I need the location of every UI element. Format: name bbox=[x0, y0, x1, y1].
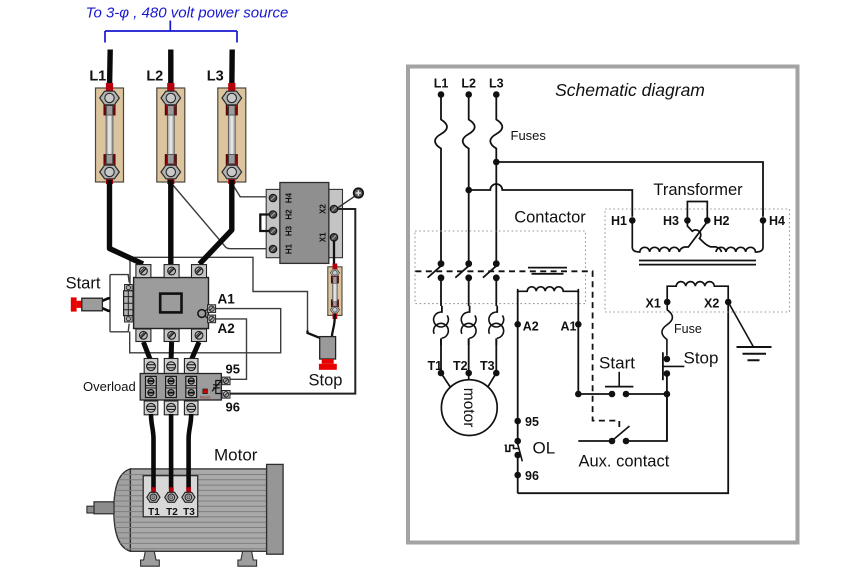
aux branch wires bbox=[578, 394, 667, 441]
contactor top terminal 3 bbox=[192, 265, 207, 278]
reset button bbox=[200, 389, 211, 399]
node A1 junction bbox=[575, 391, 582, 398]
wires T to motor bbox=[441, 373, 496, 387]
contactor bottom terminal 1 bbox=[136, 329, 151, 342]
node L2 junction bbox=[465, 187, 472, 194]
node T3 bbox=[493, 370, 500, 377]
svg-text:T2: T2 bbox=[166, 507, 178, 518]
wire control fuse to stop bbox=[332, 314, 335, 338]
svg-text:Overload: Overload bbox=[83, 379, 136, 394]
node X1 bbox=[664, 299, 671, 306]
primary coil right bbox=[716, 220, 763, 252]
ground symbol bbox=[737, 347, 772, 360]
motor left cap bbox=[114, 469, 131, 551]
wire X1 to control fuse bbox=[333, 241, 335, 267]
node H3 bbox=[684, 217, 691, 224]
control fuse holder bbox=[328, 264, 342, 320]
contactor body bbox=[134, 278, 209, 329]
svg-text:Start: Start bbox=[599, 354, 635, 373]
contactor bottom terminal 3 bbox=[192, 329, 207, 342]
cross wire H2 to left coil with hop bbox=[679, 220, 707, 252]
start branch wires bbox=[578, 393, 667, 395]
wire heater L3 down bbox=[495, 278, 497, 373]
motor circle bbox=[441, 380, 497, 436]
motor right end plate bbox=[267, 464, 284, 554]
svg-text:Contactor: Contactor bbox=[514, 209, 586, 227]
start button linkage bracket bbox=[110, 275, 129, 332]
overload top terminal 3 bbox=[184, 359, 198, 374]
wire coil left to A2 bbox=[517, 291, 519, 493]
terminal X2 bbox=[330, 205, 337, 212]
jumper H2 to H3 bbox=[260, 215, 272, 232]
control fuse below X1 bbox=[662, 302, 673, 356]
overload bottom terminal 2 bbox=[164, 401, 178, 415]
svg-text:L1: L1 bbox=[89, 69, 106, 85]
contact L1 bbox=[428, 260, 445, 281]
svg-text:A2: A2 bbox=[523, 320, 539, 334]
fuse holder F2 bbox=[157, 83, 185, 184]
svg-text:L3: L3 bbox=[207, 69, 224, 85]
motor terminal T2 bbox=[165, 487, 178, 502]
motor terminal T3 bbox=[182, 487, 195, 502]
wire overload to T3 bbox=[189, 414, 192, 489]
svg-text:L1: L1 bbox=[434, 77, 449, 91]
svg-text:H3: H3 bbox=[663, 214, 679, 228]
svg-text:Fuses: Fuses bbox=[511, 128, 547, 143]
svg-text:Transformer: Transformer bbox=[653, 181, 743, 199]
svg-text:96: 96 bbox=[525, 469, 539, 483]
wire stop left lead bbox=[308, 331, 321, 339]
terminal H4 bbox=[269, 194, 276, 201]
transformer body bbox=[280, 183, 329, 264]
core lines bbox=[639, 261, 756, 265]
contact L3 bbox=[483, 260, 500, 281]
terminal 95 tab bbox=[222, 377, 230, 385]
overload bottom terminal 1 bbox=[144, 401, 158, 415]
svg-text:Start: Start bbox=[66, 275, 101, 293]
thin wire L3 fuse to H4 bbox=[233, 185, 269, 197]
bottom rail bbox=[518, 302, 729, 493]
contactor top terminal 1 bbox=[136, 265, 151, 278]
svg-text:95: 95 bbox=[525, 415, 539, 429]
svg-text:T3: T3 bbox=[183, 507, 195, 518]
heater L3 bbox=[489, 306, 504, 346]
wire L1 with fuse bbox=[435, 95, 447, 264]
svg-text:H2: H2 bbox=[284, 209, 293, 220]
svg-text:Aux. contact: Aux. contact bbox=[579, 453, 670, 471]
frame of schematic diagram bbox=[408, 67, 798, 543]
node A2 bbox=[514, 321, 521, 328]
primary coil left bbox=[632, 220, 679, 252]
terminal X1 bbox=[330, 234, 337, 241]
overload bottom terminal 3 bbox=[184, 401, 198, 415]
contactor inner square bbox=[160, 294, 181, 313]
motor foot 1 bbox=[141, 551, 160, 566]
node L2 bbox=[465, 91, 472, 98]
motor shaft bbox=[94, 502, 114, 514]
transformer left plate bbox=[266, 189, 280, 257]
blue bracket bbox=[105, 21, 237, 43]
start button red cap bbox=[71, 297, 77, 311]
svg-text:A1: A1 bbox=[561, 320, 577, 334]
node T2 bbox=[465, 370, 472, 377]
svg-text:X1: X1 bbox=[318, 232, 327, 242]
svg-text:OL: OL bbox=[533, 439, 556, 458]
node L3 bbox=[493, 91, 500, 98]
dashed linkage line bbox=[415, 271, 619, 427]
stop button body bbox=[320, 337, 336, 359]
jumper H3 to H2 bbox=[687, 202, 707, 221]
svg-text:A1: A1 bbox=[218, 292, 236, 307]
terminal H1 bbox=[269, 245, 276, 252]
heater L2 bbox=[461, 306, 476, 346]
heater L1 bbox=[434, 306, 449, 346]
ground screw icon bbox=[338, 188, 364, 208]
node L1 bbox=[438, 91, 445, 98]
thin wire L2 fuse to H1 bbox=[172, 184, 269, 249]
svg-text:H1: H1 bbox=[611, 214, 627, 228]
secondary coil bbox=[667, 282, 728, 302]
contactor dotted box bbox=[415, 231, 586, 304]
wire A1 routing bbox=[130, 309, 281, 353]
stop pushbutton bbox=[663, 352, 685, 380]
transformer dotted box bbox=[605, 209, 790, 312]
node 96 bbox=[514, 472, 521, 479]
wire L2 with fuse bbox=[463, 95, 475, 264]
wire overload to T1 bbox=[151, 414, 154, 489]
svg-text:H4: H4 bbox=[769, 214, 785, 228]
node T1 bbox=[438, 370, 445, 377]
node stop junction bbox=[664, 391, 671, 398]
overload body bbox=[140, 374, 221, 401]
node L3 junction bbox=[493, 159, 500, 166]
node H2 bbox=[704, 217, 711, 224]
wire L2 junction to H1 with hop over L3 bbox=[469, 184, 633, 217]
wire X2 to terminal 96 bbox=[230, 209, 356, 394]
svg-text:A2: A2 bbox=[218, 321, 235, 336]
node H1 bbox=[629, 217, 636, 224]
terminal H3 bbox=[269, 227, 276, 234]
svg-text:Reset: Reset bbox=[200, 394, 211, 399]
wire contactor to overload 3 bbox=[192, 342, 200, 360]
wire L1 fuse to contactor bbox=[110, 180, 144, 264]
svg-text:X1: X1 bbox=[646, 297, 661, 311]
svg-text:96: 96 bbox=[226, 400, 240, 415]
wire L2 fuse to contactor bbox=[168, 180, 173, 264]
wire L3 incoming bbox=[229, 50, 235, 90]
svg-text:L2: L2 bbox=[461, 77, 476, 91]
motor terminal box bbox=[143, 476, 198, 517]
wire L2 incoming bbox=[168, 50, 173, 90]
svg-text:X2: X2 bbox=[704, 297, 719, 311]
node 95 bbox=[514, 418, 521, 425]
svg-text:H4: H4 bbox=[284, 192, 293, 203]
motor terminal T1 bbox=[147, 487, 160, 502]
terminal A2 tab bbox=[208, 315, 216, 323]
wire L3 with fuse bbox=[490, 95, 502, 264]
svg-text:T2: T2 bbox=[453, 359, 468, 373]
svg-text:T1: T1 bbox=[148, 507, 160, 518]
svg-text:H2: H2 bbox=[714, 214, 730, 228]
wire X2 to ground bbox=[728, 302, 753, 347]
svg-text:X2: X2 bbox=[318, 204, 327, 214]
wire aux contact to stop bbox=[130, 257, 308, 331]
motor fins bbox=[114, 475, 266, 549]
wire heater L1 down bbox=[440, 278, 442, 373]
terminal A1 tab bbox=[208, 305, 216, 313]
transformer right plate bbox=[329, 189, 343, 257]
start button leads bbox=[102, 298, 110, 311]
OL contact bbox=[514, 438, 522, 462]
fuse holder F3 bbox=[218, 83, 246, 184]
stop button red cap bbox=[322, 359, 334, 364]
OL heater squiggle bbox=[505, 445, 519, 451]
contactor top terminal 2 bbox=[164, 265, 179, 278]
wire L3 junction to H4 bbox=[496, 162, 763, 217]
wire L1 incoming bbox=[107, 50, 113, 90]
svg-text:95: 95 bbox=[226, 362, 240, 377]
svg-text:Fuse: Fuse bbox=[674, 322, 702, 336]
overload NC contact symbol bbox=[212, 381, 221, 394]
svg-text:Stop: Stop bbox=[309, 372, 343, 390]
contact L2 bbox=[455, 260, 472, 281]
aux contact block on contactor bbox=[124, 285, 133, 323]
svg-text:Stop: Stop bbox=[684, 349, 719, 368]
wire overload to T2 bbox=[169, 414, 174, 489]
terminal H2 bbox=[269, 211, 276, 218]
aux contact bbox=[609, 426, 630, 444]
overload heater element 1 bbox=[146, 376, 157, 397]
node X2 bbox=[725, 299, 732, 306]
svg-text:H3: H3 bbox=[284, 225, 293, 236]
motor body bbox=[130, 469, 266, 551]
start button body bbox=[82, 298, 103, 311]
fuse holder F1 bbox=[96, 83, 124, 184]
wire coil right to A1 bbox=[577, 291, 579, 394]
overload heater element 2 bbox=[166, 376, 177, 397]
wire heater L2 down bbox=[468, 278, 470, 373]
svg-text:motor: motor bbox=[460, 388, 477, 428]
contactor coil bbox=[518, 287, 579, 292]
svg-text:L2: L2 bbox=[146, 69, 163, 85]
contactor bottom terminal 2 bbox=[164, 329, 179, 342]
overload heater element 3 bbox=[186, 376, 197, 397]
wire contactor to overload 2 bbox=[169, 342, 175, 360]
cross wire H3 to right coil bbox=[687, 220, 721, 252]
svg-text:L3: L3 bbox=[489, 77, 504, 91]
wire contactor to overload 1 bbox=[143, 342, 150, 360]
svg-text:Motor: Motor bbox=[214, 446, 258, 465]
svg-text:To 3-φ , 480 volt power source: To 3-φ , 480 volt power source bbox=[86, 5, 289, 22]
node H4 bbox=[760, 217, 767, 224]
contactor coil circle bbox=[198, 309, 209, 319]
overload top terminal 1 bbox=[144, 359, 158, 374]
svg-text:Schematic diagram: Schematic diagram bbox=[555, 80, 705, 100]
wire L3 fuse to contactor bbox=[200, 180, 232, 264]
start pushbutton bbox=[605, 372, 633, 398]
wire A2 to 95 bbox=[215, 319, 247, 379]
svg-text:H1: H1 bbox=[284, 243, 293, 254]
node A1 bbox=[575, 321, 582, 328]
armature bars bbox=[528, 268, 567, 274]
motor foot 2 bbox=[238, 551, 257, 566]
svg-text:T3: T3 bbox=[480, 359, 495, 373]
terminal 96 tab bbox=[222, 391, 230, 399]
overload top terminal 2 bbox=[164, 359, 178, 374]
wire stop to junction bbox=[666, 374, 668, 442]
